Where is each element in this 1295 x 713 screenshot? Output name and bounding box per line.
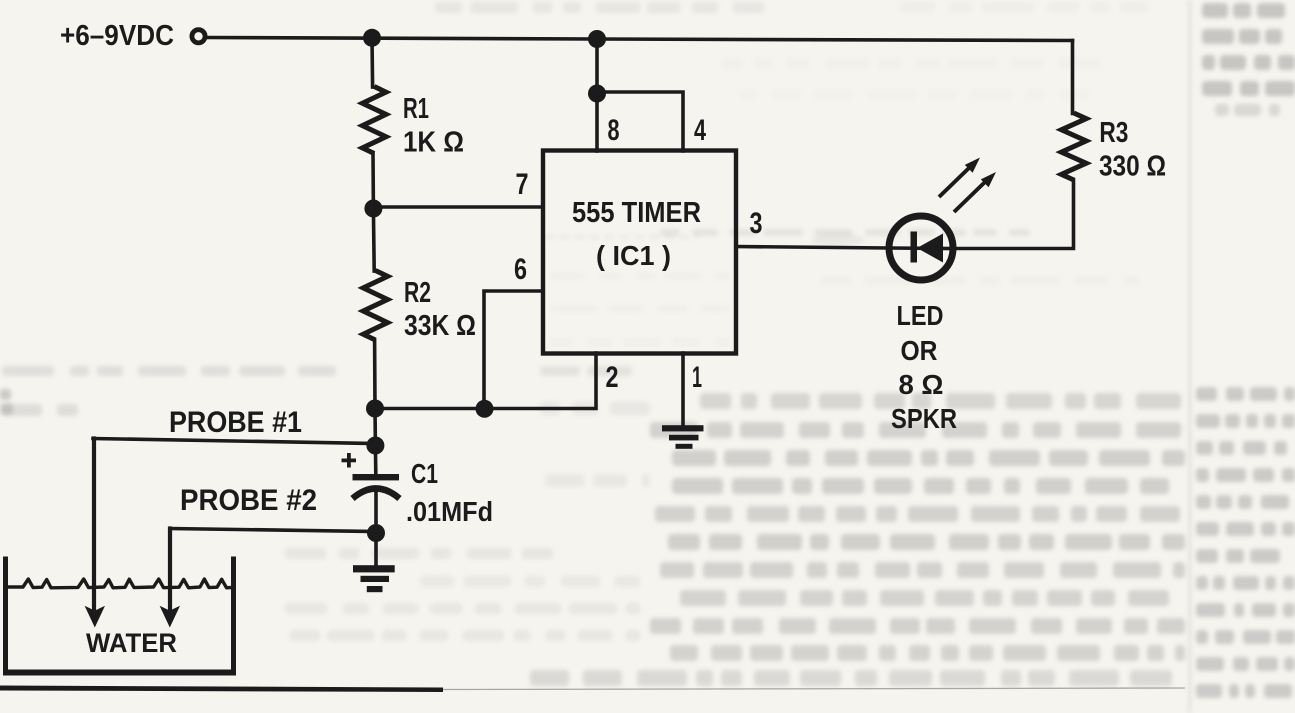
resistor R1 — [362, 87, 386, 154]
scan artifact line (decorative) — [0, 686, 443, 693]
LED light arrow 1 — [939, 158, 980, 198]
junction V+ / R1 — [363, 29, 381, 47]
ground symbol pin1 — [662, 425, 704, 449]
wire V+ junction to R1 top — [370, 38, 374, 88]
wire V+ to R3 top — [1071, 41, 1075, 114]
svg-text:7: 7 — [516, 168, 529, 201]
svg-text:1K Ω: 1K Ω — [403, 127, 464, 159]
svg-text:33K Ω: 33K Ω — [404, 310, 476, 342]
wire probe2 drop to water — [168, 529, 172, 613]
wire V+ top rail — [208, 38, 1073, 41]
svg-text:OR: OR — [901, 335, 938, 366]
wire pin2 to junctions — [375, 353, 596, 409]
resistor R2 — [363, 271, 387, 341]
svg-text:WATER: WATER — [86, 628, 177, 658]
water surface wavy line — [8, 579, 231, 588]
LED light arrow 2 — [954, 172, 996, 212]
wire probe1 horizontal — [93, 439, 375, 444]
svg-text:6: 6 — [514, 253, 527, 286]
wire junction to pin4 — [597, 92, 683, 151]
wire node A to R2 top — [372, 209, 376, 272]
node +6-9VDC terminal — [192, 30, 205, 43]
svg-text:8 Ω: 8 Ω — [899, 369, 944, 400]
node A junction R1/R2/pin7 — [364, 200, 382, 218]
junction pin2 / pin6 — [476, 400, 494, 418]
wire junction to pin8 — [595, 93, 599, 151]
wire R2 bottom to pin2 node — [373, 340, 377, 409]
wire R1 bottom to node A junction — [371, 154, 375, 209]
junction probe2 / C1- — [367, 524, 385, 542]
capacitor C1 top plate — [353, 474, 400, 480]
svg-text:PROBE #2: PROBE #2 — [180, 484, 317, 517]
svg-text:PROBE #1: PROBE #1 — [169, 406, 302, 439]
ground symbol below C1 — [353, 565, 395, 592]
water tank bottom — [3, 670, 236, 676]
wire pin1 to ground — [681, 353, 685, 425]
svg-text:R3: R3 — [1099, 117, 1128, 149]
wire probe2 node to ground — [374, 533, 378, 567]
LED cathode bar — [911, 232, 918, 263]
LED anode triangle — [917, 234, 943, 263]
svg-text:R2: R2 — [404, 277, 431, 309]
svg-text:4: 4 — [694, 114, 706, 147]
LED D1 circle — [889, 216, 953, 280]
svg-text:C1: C1 — [411, 458, 438, 489]
svg-text:SPKR: SPKR — [891, 403, 957, 434]
wire pin3 to LED anode — [736, 247, 890, 249]
wire C1 bottom to probe2 node — [374, 492, 378, 533]
wire V+ to 8-4 junction — [595, 39, 599, 93]
svg-text:8: 8 — [608, 114, 620, 147]
wire pin2 node to probe1 node — [373, 409, 377, 446]
wire through LED — [890, 246, 953, 250]
svg-text:3: 3 — [750, 207, 763, 240]
resistor R3 — [1061, 113, 1086, 180]
junction pin8-pin4 stub — [588, 85, 606, 103]
junction probe1 / C1+ — [366, 437, 384, 455]
probe2 arrowhead — [160, 606, 180, 628]
wire node A to pin7 — [373, 205, 543, 209]
wire pin6 loop — [484, 291, 543, 409]
junction V+ / pin8-4 — [588, 30, 606, 48]
water tank left wall — [3, 557, 8, 674]
svg-text:1: 1 — [692, 361, 702, 394]
wire probe2 horizontal — [170, 529, 376, 532]
junction pin2 / R2 — [366, 400, 384, 418]
svg-text:( IC1 ): ( IC1 ) — [596, 240, 671, 271]
svg-text:R1: R1 — [403, 93, 429, 125]
svg-text:330 Ω: 330 Ω — [1099, 151, 1166, 183]
wire probe1 drop to water — [92, 439, 96, 613]
probe1 arrowhead — [85, 606, 105, 628]
svg-text:555 TIMER: 555 TIMER — [572, 197, 701, 229]
svg-text:LED: LED — [897, 300, 944, 331]
capacitor C1 plus sign — [342, 453, 357, 468]
op-amp U1 555 timer IC1 box — [543, 151, 736, 354]
wire probe1 node to C1 top — [374, 445, 378, 473]
water tank right wall — [231, 557, 236, 674]
svg-text:+6–9VDC: +6–9VDC — [60, 20, 174, 52]
svg-text:.01MFd: .01MFd — [406, 496, 493, 527]
svg-text:2: 2 — [606, 361, 619, 394]
capacitor C1 bottom curved plate — [353, 489, 400, 499]
wire R3 bottom to LED cathode side — [953, 180, 1074, 249]
